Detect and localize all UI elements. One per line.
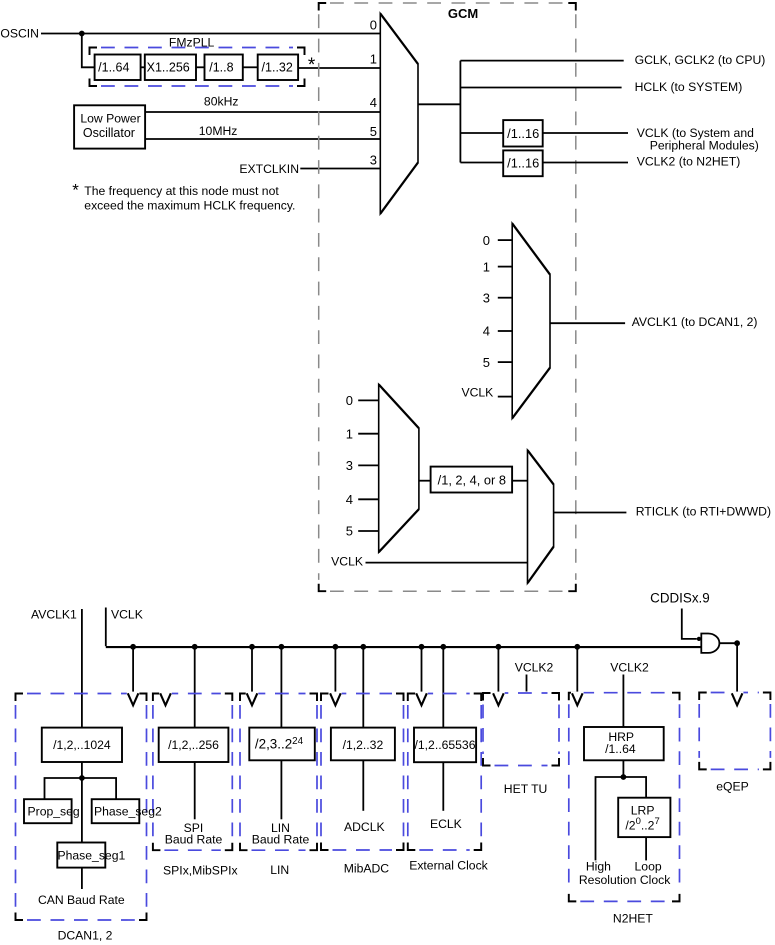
svg-text:VCLK2: VCLK2 xyxy=(515,661,554,675)
svg-text:/1..64: /1..64 xyxy=(98,60,129,74)
svg-text:5: 5 xyxy=(346,524,353,539)
svg-text:1: 1 xyxy=(483,259,490,274)
svg-text:4: 4 xyxy=(346,492,353,507)
svg-text:CDDISx.9: CDDISx.9 xyxy=(650,591,710,606)
svg-text:4: 4 xyxy=(483,324,490,339)
svg-text:VCLK2: VCLK2 xyxy=(610,661,649,675)
svg-text:/1,2..32: /1,2..32 xyxy=(343,738,384,752)
svg-text:10MHz: 10MHz xyxy=(199,124,238,138)
svg-text:VCLK: VCLK xyxy=(461,386,493,400)
svg-text:X1..256: X1..256 xyxy=(147,60,190,74)
svg-text:MibADC: MibADC xyxy=(344,861,390,875)
svg-text:/1..8: /1..8 xyxy=(209,60,233,74)
svg-text:Baud Rate: Baud Rate xyxy=(252,833,310,847)
svg-text:1: 1 xyxy=(370,52,377,67)
svg-text:RTICLK (to RTI+DWWD): RTICLK (to RTI+DWWD) xyxy=(636,504,771,518)
svg-text:80kHz: 80kHz xyxy=(204,95,239,109)
svg-text:N2HET: N2HET xyxy=(613,911,654,925)
svg-text:GCLK, GCLK2 (to CPU): GCLK, GCLK2 (to CPU) xyxy=(635,53,766,67)
svg-text:3: 3 xyxy=(370,153,377,168)
svg-text:GCM: GCM xyxy=(448,6,478,21)
svg-text:LIN: LIN xyxy=(270,863,289,877)
svg-text:1: 1 xyxy=(346,426,353,441)
svg-text:EXTCLKIN: EXTCLKIN xyxy=(239,162,299,176)
svg-text:CAN Baud Rate: CAN Baud Rate xyxy=(38,893,125,907)
svg-text:/1,2,..1024: /1,2,..1024 xyxy=(53,738,111,752)
svg-text:5: 5 xyxy=(370,124,377,139)
svg-text:0: 0 xyxy=(370,18,377,33)
svg-text:ADCLK: ADCLK xyxy=(344,820,385,834)
svg-text:VCLK2 (to N2HET): VCLK2 (to N2HET) xyxy=(637,155,741,169)
svg-text:Peripheral Modules): Peripheral Modules) xyxy=(650,139,759,153)
svg-text:HET TU: HET TU xyxy=(504,782,548,796)
svg-text:/1..64: /1..64 xyxy=(605,742,636,756)
svg-text:3: 3 xyxy=(483,290,490,305)
svg-text:Prop_seg: Prop_seg xyxy=(28,805,80,819)
svg-text:VCLK: VCLK xyxy=(111,607,143,621)
svg-text:OSCIN: OSCIN xyxy=(0,26,39,40)
svg-text:Low Power: Low Power xyxy=(80,112,140,126)
svg-text:*: * xyxy=(308,55,316,76)
svg-text:Oscillator: Oscillator xyxy=(83,126,135,140)
svg-text:AVCLK1 (to DCAN1, 2): AVCLK1 (to DCAN1, 2) xyxy=(632,315,758,329)
svg-text:Resolution Clock: Resolution Clock xyxy=(579,873,671,887)
svg-text:0: 0 xyxy=(483,233,490,248)
svg-text:*: * xyxy=(72,181,79,200)
svg-text:0: 0 xyxy=(346,393,353,408)
svg-text:LRP: LRP xyxy=(631,804,655,818)
svg-text:/1, 2, 4, or 8: /1, 2, 4, or 8 xyxy=(438,473,506,488)
svg-text:SPIx,MibSPIx: SPIx,MibSPIx xyxy=(163,864,238,878)
svg-text:/1..16: /1..16 xyxy=(507,156,539,171)
svg-text:High: High xyxy=(586,860,611,874)
svg-text:DCAN1, 2: DCAN1, 2 xyxy=(58,928,113,942)
svg-text:AVCLK1: AVCLK1 xyxy=(31,607,77,621)
svg-text:4: 4 xyxy=(370,95,377,110)
svg-text:/1,2,..256: /1,2,..256 xyxy=(168,738,219,752)
svg-text:HCLK (to SYSTEM): HCLK (to SYSTEM) xyxy=(635,80,743,94)
svg-text:3: 3 xyxy=(346,458,353,473)
svg-text:The frequency at this node mus: The frequency at this node must not xyxy=(84,184,279,198)
svg-text:eQEP: eQEP xyxy=(716,780,749,794)
svg-text:5: 5 xyxy=(483,355,490,370)
svg-text:/1..16: /1..16 xyxy=(507,126,539,141)
svg-text:Loop: Loop xyxy=(635,860,662,874)
svg-text:External Clock: External Clock xyxy=(409,859,488,873)
svg-text:ECLK: ECLK xyxy=(430,817,462,831)
svg-text:Baud Rate: Baud Rate xyxy=(165,833,223,847)
svg-text:VCLK: VCLK xyxy=(331,554,363,568)
svg-text:Phase_seg1: Phase_seg1 xyxy=(58,848,126,862)
svg-text:/1,2..65536: /1,2..65536 xyxy=(415,738,476,752)
svg-text:/1..32: /1..32 xyxy=(262,60,293,74)
svg-text:Phase_seg2: Phase_seg2 xyxy=(94,805,162,819)
svg-text:exceed the maximum HCLK freque: exceed the maximum HCLK frequency. xyxy=(84,199,295,213)
